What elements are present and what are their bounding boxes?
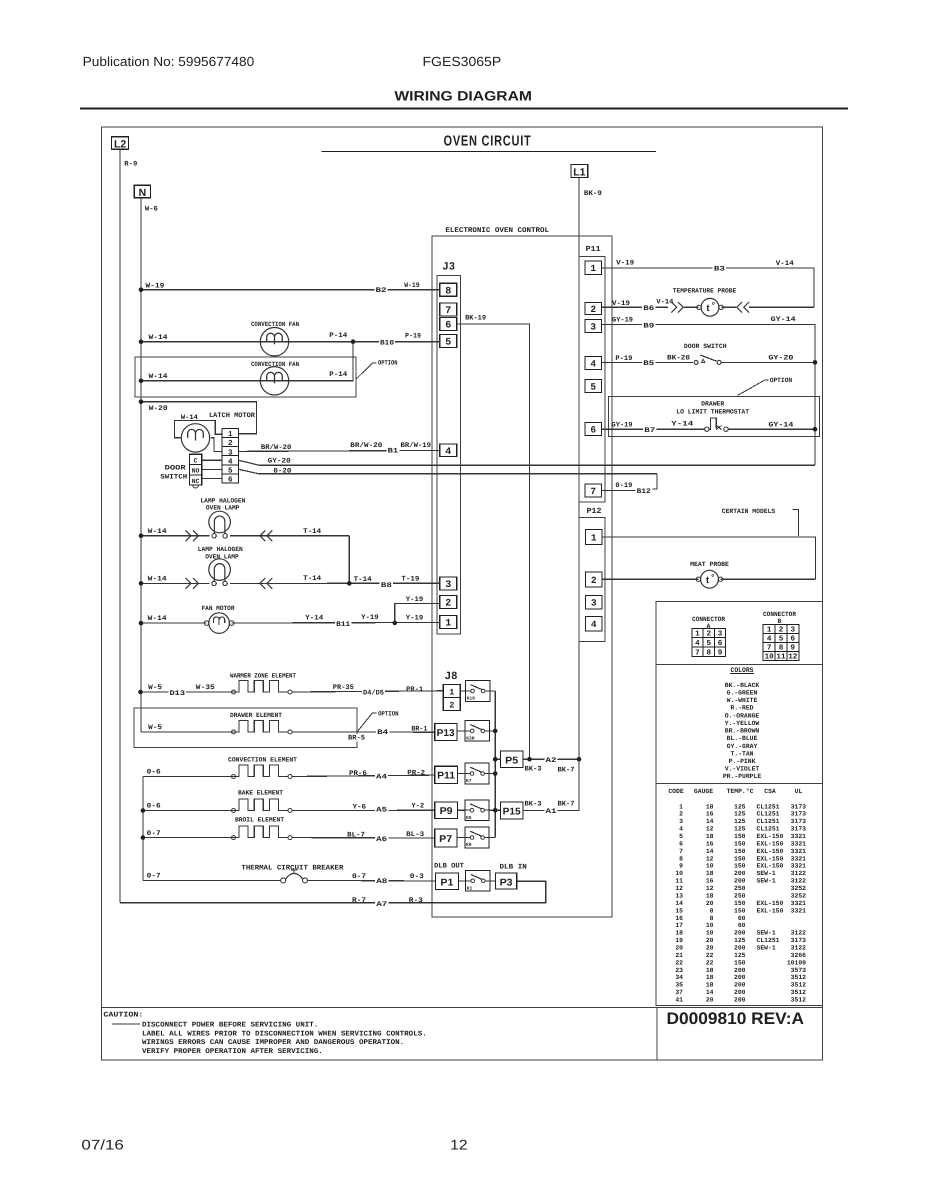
svg-text:D0009810 REV:A: D0009810 REV:A: [667, 1009, 805, 1028]
svg-text:3321: 3321: [791, 833, 807, 840]
svg-text:3321: 3321: [791, 900, 807, 907]
wire W-14 : N rail to fan motor: [141, 622, 207, 624]
svg-text:A7: A7: [376, 901, 387, 909]
svg-text:0-7: 0-7: [147, 830, 161, 838]
svg-text:1: 1: [590, 263, 596, 274]
svg-text:4: 4: [590, 358, 596, 369]
svg-text:Y-14: Y-14: [305, 614, 323, 622]
junction dot bus K3H: [493, 729, 498, 734]
svg-text:OVEN CIRCUIT: OVEN CIRCUIT: [444, 133, 532, 149]
svg-text:BAKE ELEMENT: BAKE ELEMENT: [238, 790, 283, 797]
svg-text:10: 10: [706, 863, 714, 870]
svg-text:20: 20: [675, 944, 683, 951]
svg-text:17: 17: [675, 922, 683, 929]
svg-text:18: 18: [706, 974, 714, 981]
option box around drawer element: [134, 708, 357, 747]
bake element: [232, 809, 236, 813]
wire PR-35 : warmer element to splice D4/D5 to J8 pin 1: [292, 691, 443, 692]
splice B5: [642, 360, 655, 367]
wire P1 to relay K1: [458, 880, 465, 882]
svg-text:t: t: [706, 303, 710, 314]
P12 pin 3: [586, 596, 603, 610]
P11 pin 6: [585, 423, 602, 436]
svg-text:GY-14: GY-14: [768, 422, 793, 430]
svg-text:Y-19: Y-19: [361, 614, 379, 622]
wire lamp2 to splice B8 to J3 pin 3: [230, 582, 440, 584]
svg-text:150: 150: [734, 833, 746, 840]
splice B2: [374, 287, 387, 294]
option leader line lo limit: [738, 381, 764, 396]
svg-text:3321: 3321: [791, 840, 807, 847]
svg-text:GY-19: GY-19: [612, 316, 633, 324]
junction dot lamp T-14: [347, 581, 352, 586]
connector P12 outline strip: [579, 518, 605, 642]
splice B9: [642, 322, 655, 329]
junction dot fan motor branch: [393, 621, 398, 626]
svg-text:W-14: W-14: [148, 528, 167, 536]
label BR-5: [347, 734, 366, 741]
latch connector block pins 1-6: [222, 429, 238, 484]
svg-text:3512: 3512: [791, 996, 807, 1003]
svg-text:TEMP.°C: TEMP.°C: [727, 788, 754, 795]
svg-text:T-19: T-19: [401, 575, 419, 583]
splice B7: [643, 427, 656, 434]
svg-text:6: 6: [679, 840, 683, 847]
svg-text:R-7: R-7: [352, 897, 366, 905]
svg-text:OVEN LAMP: OVEN LAMP: [206, 504, 240, 511]
meat probe: [701, 570, 719, 588]
svg-text:12: 12: [450, 1137, 468, 1153]
svg-text:T.-TAN: T.-TAN: [730, 750, 753, 757]
svg-text:CSA: CSA: [764, 788, 776, 795]
junction dot on N rail at lamp 1: [139, 534, 144, 539]
relay K7: [465, 763, 489, 784]
junction dot orange rail at bake row: [141, 808, 146, 813]
svg-text:SEW-1: SEW-1: [757, 930, 776, 937]
svg-text:21: 21: [675, 952, 683, 959]
svg-text:J3: J3: [443, 261, 456, 273]
P11 pin 7: [585, 484, 602, 497]
svg-text:LAMP HALOGEN: LAMP HALOGEN: [200, 497, 245, 504]
wire relay K1 to P3: [490, 880, 496, 882]
svg-text:1: 1: [228, 431, 233, 439]
splice A6: [375, 836, 388, 843]
connector P13: [435, 724, 457, 741]
svg-text:t: t: [706, 575, 710, 586]
wire W-5 : N rail to warmer zone element: [141, 691, 237, 693]
svg-text:A5: A5: [376, 807, 387, 815]
svg-text:18: 18: [706, 982, 714, 989]
svg-text:P9: P9: [440, 806, 454, 817]
svg-text:9: 9: [679, 863, 683, 870]
svg-text:3266: 3266: [791, 952, 807, 959]
svg-text:GY-14: GY-14: [771, 316, 796, 324]
svg-text:7: 7: [445, 306, 451, 317]
svg-text:K19: K19: [467, 696, 476, 702]
svg-text:GY.-GRAY: GY.-GRAY: [727, 743, 758, 750]
svg-text:0-20: 0-20: [273, 467, 291, 475]
svg-text:B9: B9: [643, 322, 654, 330]
svg-text:22: 22: [706, 959, 714, 966]
splice B3: [713, 265, 726, 272]
wire GY-14 : lo limit to junction: [728, 428, 815, 430]
svg-text:60: 60: [738, 922, 746, 929]
connector P9: [435, 802, 458, 819]
splice A4: [375, 773, 388, 780]
wire relay K9 to bus: [489, 837, 495, 839]
svg-text:10: 10: [765, 652, 775, 661]
svg-text:G.-GREEN: G.-GREEN: [727, 689, 758, 696]
svg-text:Y-14: Y-14: [671, 421, 693, 429]
connector chevrons right lamp1: [186, 530, 191, 541]
svg-text:NC: NC: [192, 478, 200, 485]
orange rail down left of elements: [142, 777, 144, 881]
wire GY-20 : latch pin 4 across to right door-switch junction: [238, 460, 815, 465]
svg-text:3122: 3122: [791, 878, 807, 885]
divider under colors list: [656, 783, 823, 785]
svg-text:SEW-1: SEW-1: [757, 878, 776, 885]
wire 0-7 : orange rail to broil element: [143, 837, 237, 839]
wire O-20 : latch pin 5 across to splice B12 bracket: [238, 469, 657, 474]
svg-text:P-19: P-19: [405, 332, 421, 340]
svg-text:0-19: 0-19: [615, 482, 632, 490]
connector J3 outline strip: [437, 276, 460, 634]
svg-text:FGES3065P: FGES3065P: [423, 54, 502, 69]
svg-text:3173: 3173: [791, 811, 807, 818]
svg-text:W-35: W-35: [196, 684, 215, 692]
svg-text:125: 125: [734, 818, 746, 825]
svg-text:CL1251: CL1251: [757, 826, 780, 833]
svg-text:B6: B6: [643, 305, 654, 313]
svg-text:3573: 3573: [791, 967, 807, 974]
svg-text:W-14: W-14: [148, 615, 167, 623]
svg-text:200: 200: [734, 967, 746, 974]
junction dot on N rail at fan 2: [139, 379, 144, 384]
svg-text:2: 2: [449, 701, 454, 711]
svg-text:P-14: P-14: [329, 371, 347, 379]
svg-text:UL: UL: [795, 788, 803, 795]
option leader line drawer box: [358, 713, 373, 731]
junction dot L1 wire at A2: [577, 757, 582, 762]
svg-text:3173: 3173: [791, 803, 807, 810]
splice B10: [379, 339, 395, 346]
svg-text:1: 1: [679, 803, 683, 810]
svg-text:1: 1: [445, 619, 451, 630]
svg-text:20: 20: [706, 937, 714, 944]
J3 pin 1: [440, 616, 457, 629]
svg-text:DLB IN: DLB IN: [500, 864, 527, 872]
svg-text:W-14: W-14: [149, 334, 168, 342]
svg-text:7: 7: [590, 486, 596, 497]
svg-text:GY-20: GY-20: [768, 355, 793, 363]
svg-text:35: 35: [675, 982, 683, 989]
svg-text:3: 3: [445, 580, 451, 591]
wire 0-6 : orange rail to bake element: [143, 810, 237, 812]
svg-text:19: 19: [675, 937, 683, 944]
svg-text:K5: K5: [466, 815, 472, 821]
svg-text:P12: P12: [587, 507, 602, 516]
svg-text:LATCH MOTOR: LATCH MOTOR: [209, 412, 256, 420]
wire P-14 : fan 1 to junction and J3 pin 5: [275, 341, 440, 343]
svg-text:PR-2: PR-2: [407, 769, 425, 777]
svg-text:OPTION: OPTION: [378, 359, 398, 366]
svg-text:200: 200: [734, 944, 746, 951]
connector P15: [501, 802, 524, 819]
svg-text:EXL-150: EXL-150: [757, 900, 784, 907]
splice B12 and bracket up to O-20 wire: [636, 488, 652, 495]
connector P7: [435, 829, 457, 847]
svg-text:WIRING DIAGRAM: WIRING DIAGRAM: [394, 89, 532, 104]
svg-text:R-9: R-9: [124, 161, 137, 169]
caution strip divider: [102, 1006, 823, 1008]
wire W-14 : N rail to oven lamp 1: [141, 535, 209, 537]
svg-text:OPTION: OPTION: [378, 710, 398, 717]
svg-text:TEMPERATURE PROBE: TEMPERATURE PROBE: [673, 288, 736, 295]
wire Y-6 : bake element to splice A5 to J8 P9: [292, 809, 435, 811]
thermal circuit breaker: [281, 878, 286, 883]
wire W-6 : N rail down: [140, 198, 142, 732]
junction dot bus P15 row: [493, 808, 498, 813]
J3 pin 3: [440, 577, 457, 590]
svg-text:10: 10: [706, 922, 714, 929]
svg-text:3321: 3321: [791, 907, 807, 914]
svg-text:23: 23: [675, 967, 683, 974]
relay K5: [465, 800, 489, 821]
svg-text:150: 150: [734, 863, 746, 870]
J3 pin 7: [440, 303, 457, 316]
svg-text:11: 11: [675, 878, 683, 885]
svg-text:A1: A1: [546, 808, 557, 816]
svg-text:W-14: W-14: [148, 575, 167, 583]
svg-text:P5: P5: [505, 755, 519, 766]
wire BL-7 : broil element to splice A6 to J8 P7: [292, 837, 435, 839]
svg-text:4: 4: [679, 826, 683, 833]
junction dot orange rail at broil row: [141, 835, 146, 840]
svg-text:41: 41: [675, 996, 683, 1003]
connector A 3x3 grid: [692, 628, 703, 637]
svg-text:15: 15: [675, 907, 683, 914]
svg-text:BL-3: BL-3: [406, 831, 424, 839]
svg-text:B10: B10: [380, 339, 394, 347]
wire BK-9 : L1 down to DLB relay bus: [578, 177, 580, 759]
svg-text:DOOR SWITCH: DOOR SWITCH: [684, 343, 727, 350]
svg-text:CAUTION:: CAUTION:: [103, 1012, 143, 1020]
svg-text:3321: 3321: [791, 863, 807, 870]
wire relay K19 to bus: [490, 690, 495, 692]
svg-text:P11: P11: [586, 245, 601, 254]
svg-text:D4/D5: D4/D5: [363, 689, 384, 698]
svg-text:8: 8: [679, 855, 683, 862]
svg-text:Y-2: Y-2: [411, 803, 424, 811]
svg-text:P-14: P-14: [329, 332, 347, 340]
svg-text:14: 14: [706, 989, 714, 996]
svg-text:8: 8: [710, 915, 714, 922]
wire R-7 : L2 rail bottom row to DLB return: [120, 881, 546, 903]
wire 0-7 : orange rail to thermal circuit breaker: [143, 879, 281, 881]
option leader line fan box: [356, 364, 372, 380]
P11 pin 4: [585, 357, 602, 370]
svg-text:Y.-YELLOW: Y.-YELLOW: [725, 720, 760, 727]
svg-text:B5: B5: [643, 360, 654, 368]
svg-text:BR-1: BR-1: [411, 726, 427, 734]
svg-text:DRAWER: DRAWER: [701, 400, 724, 407]
svg-text:BK-3: BK-3: [525, 765, 542, 773]
svg-text:EXL-150: EXL-150: [757, 833, 784, 840]
caution dash: [112, 1023, 140, 1025]
terminal L2: [112, 137, 129, 150]
svg-text:1: 1: [449, 688, 454, 698]
svg-text:LABEL ALL WIRES PRIOR TO DISCO: LABEL ALL WIRES PRIOR TO DISCONNECTION W…: [142, 1030, 427, 1038]
connector P5: [501, 751, 524, 768]
svg-text:PR.-PURPLE: PR.-PURPLE: [723, 773, 762, 780]
svg-text:R.-RED: R.-RED: [730, 705, 753, 712]
svg-text:3: 3: [718, 630, 723, 639]
svg-text:125: 125: [734, 952, 746, 959]
svg-text:PR-35: PR-35: [333, 684, 354, 692]
svg-text:6: 6: [590, 424, 596, 435]
wire T-14 : lamp1 corner down to lamp2 junction: [348, 536, 350, 584]
svg-text:SEW-1: SEW-1: [757, 870, 776, 877]
svg-text:B2: B2: [376, 287, 387, 295]
title underline rule: [80, 108, 848, 110]
connector P11 plug: [435, 766, 458, 783]
svg-text:W-5: W-5: [148, 724, 162, 732]
svg-text:K9: K9: [466, 842, 472, 848]
wire W-20 : N rail over to latch connector pin 1: [141, 402, 257, 434]
svg-text:P3: P3: [500, 877, 514, 888]
svg-text:7: 7: [679, 848, 683, 855]
P12 pin 1: [586, 530, 603, 545]
J3 pin 5: [440, 335, 457, 348]
wire A1 : P15 to L1 wire corner: [523, 759, 579, 810]
label A1: [544, 808, 557, 815]
svg-text:EXL-150: EXL-150: [757, 848, 784, 855]
drawer element: [232, 730, 236, 734]
svg-text:0-6: 0-6: [147, 769, 161, 777]
svg-text:3173: 3173: [791, 818, 807, 825]
svg-text:5: 5: [445, 338, 451, 349]
certain models bracket: [792, 510, 798, 536]
svg-text:CONVECTION FAN: CONVECTION FAN: [251, 321, 299, 328]
svg-text:B11: B11: [336, 621, 350, 629]
svg-text:3321: 3321: [791, 848, 807, 855]
svg-text:5: 5: [590, 381, 596, 392]
svg-text:6: 6: [718, 639, 723, 648]
svg-text:2: 2: [590, 304, 596, 315]
svg-text:BR/W-20: BR/W-20: [261, 443, 292, 452]
svg-text:6: 6: [228, 476, 233, 485]
svg-text:9: 9: [718, 648, 723, 657]
wire GY-19 : P11 pin6 to lo limit thermostat: [602, 428, 705, 430]
svg-text:16: 16: [706, 811, 714, 818]
svg-text:125: 125: [734, 811, 746, 818]
connector chevrons temperature probe right: [721, 306, 736, 308]
P11 pin 2: [585, 303, 602, 315]
svg-text:3252: 3252: [791, 892, 807, 899]
svg-text:BK-7: BK-7: [558, 766, 575, 774]
wire P12 pin1 to meat probe loop corner: [602, 537, 816, 579]
svg-text:W-6: W-6: [145, 206, 158, 214]
wire V-19 : P11 pin2 to temperature probe: [602, 306, 669, 308]
svg-text:°: °: [712, 300, 716, 310]
svg-text:18: 18: [706, 892, 714, 899]
svg-text:20: 20: [706, 996, 714, 1003]
svg-text:3122: 3122: [791, 870, 807, 877]
svg-text:BK-20: BK-20: [667, 355, 690, 363]
svg-text:NO: NO: [192, 468, 200, 475]
svg-text:CONNECTOR: CONNECTOR: [763, 611, 796, 618]
svg-text:°: °: [711, 572, 715, 582]
oven lamp 1 halogen lamp: [209, 511, 231, 533]
svg-text:3122: 3122: [791, 930, 807, 937]
junction dot on N rail at warmer row: [138, 690, 143, 695]
svg-text:CL1251: CL1251: [757, 818, 780, 825]
splice B8: [380, 581, 393, 588]
wire W-19 : N rail to splice B2 to J3 pin 8: [141, 289, 440, 291]
svg-text:2: 2: [445, 599, 451, 610]
svg-text:CERTAIN MODELS: CERTAIN MODELS: [722, 508, 775, 515]
junction dot door switch GY-14 wire: [813, 360, 818, 365]
splice A8: [375, 877, 388, 884]
J3 pin 8: [440, 283, 457, 296]
svg-text:SEW-1: SEW-1: [757, 944, 776, 951]
junction dot lo limit GY-14 wire: [813, 427, 818, 432]
wire BR/W-20 : latch pin 3 to splice B1 to J3 pin 4: [238, 450, 439, 451]
svg-text:CL1251: CL1251: [757, 803, 780, 810]
svg-text:12: 12: [675, 885, 683, 892]
svg-text:4: 4: [228, 458, 233, 466]
svg-text:150: 150: [734, 959, 746, 966]
convection fan 1 motor: [260, 328, 288, 356]
svg-text:12: 12: [788, 652, 798, 661]
door switch block C NO NC: [190, 454, 202, 485]
svg-text:Y-19: Y-19: [406, 596, 424, 604]
latch motor: [181, 424, 209, 452]
svg-text:125: 125: [734, 826, 746, 833]
svg-text:14: 14: [675, 900, 683, 907]
junction dot bus K7: [493, 771, 498, 776]
svg-text:K3H: K3H: [466, 736, 475, 742]
svg-text:1: 1: [591, 532, 597, 543]
svg-text:Y-6: Y-6: [353, 803, 367, 811]
svg-text:3173: 3173: [791, 937, 807, 944]
splice A5: [375, 806, 388, 813]
svg-text:GAUGE: GAUGE: [694, 788, 713, 795]
svg-text:250: 250: [734, 892, 746, 899]
svg-text:K7: K7: [466, 778, 472, 784]
wire door switch NO to latch pin 5: [202, 468, 223, 470]
svg-text:5: 5: [228, 467, 233, 475]
svg-text:20: 20: [706, 944, 714, 951]
svg-text:P11: P11: [437, 771, 456, 782]
svg-text:O.-ORANGE: O.-ORANGE: [725, 712, 760, 719]
svg-text:P13: P13: [437, 728, 456, 739]
svg-text:13: 13: [675, 892, 683, 899]
P11 pin 3: [585, 320, 602, 333]
option box around convection fan 2: [135, 357, 356, 397]
svg-text:10: 10: [675, 870, 683, 877]
connector chevrons left lamp1: [260, 530, 265, 541]
fan motor: [209, 613, 230, 634]
wire BR-5 : drawer element to splice B4 to J8 P13: [292, 731, 435, 733]
option box around drawer lo limit thermostat: [608, 396, 819, 436]
svg-text:0-6: 0-6: [147, 803, 161, 811]
svg-text:W-5: W-5: [148, 684, 162, 692]
svg-text:22: 22: [675, 959, 683, 966]
svg-text:18: 18: [706, 833, 714, 840]
svg-text:V-19: V-19: [612, 300, 630, 308]
svg-text:12: 12: [706, 826, 714, 833]
